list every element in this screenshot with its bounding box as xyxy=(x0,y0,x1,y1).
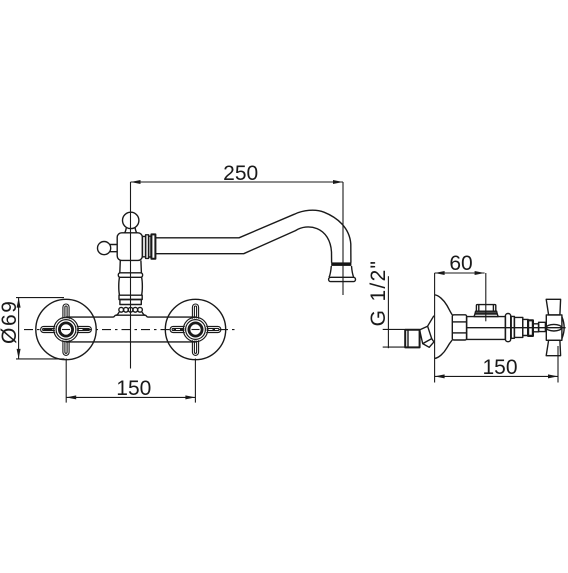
left wall flange circle xyxy=(36,299,96,359)
inlet square nut xyxy=(405,330,419,348)
side view centerline xyxy=(467,327,566,329)
dimension 150 (side) line xyxy=(435,375,558,377)
150 front extension lines xyxy=(65,359,67,403)
top boss knurled band xyxy=(475,311,497,314)
finial neck xyxy=(125,228,137,233)
right handle cross arms xyxy=(170,304,221,355)
left handle hub rings xyxy=(54,317,78,341)
valve body cylinder xyxy=(467,317,506,340)
handle bottom lobe xyxy=(546,340,560,355)
top boss cap xyxy=(476,305,495,312)
column band 2 xyxy=(119,295,142,299)
flange hex nut xyxy=(452,315,466,340)
column base flare xyxy=(116,312,146,315)
D69 extension lines xyxy=(16,297,64,299)
column barrel xyxy=(119,277,143,295)
150 side right extension xyxy=(557,346,559,383)
column neck below head xyxy=(120,260,142,272)
bonnet capsule ring xyxy=(505,314,510,342)
spout swan-neck outline xyxy=(156,210,351,262)
dashed horizontal centerline of front view xyxy=(24,329,235,331)
dimension 150 (front) line xyxy=(66,396,195,398)
svg-text:150: 150 xyxy=(482,356,517,379)
bonnet ring 2 xyxy=(511,316,514,338)
handle top lobe xyxy=(546,299,560,315)
svg-text:G 1/2": G 1/2" xyxy=(367,260,390,327)
dimension D69 line xyxy=(18,298,20,359)
60 right extension line xyxy=(485,273,487,321)
svg-text:150: 150 xyxy=(116,377,151,400)
svg-text:60: 60 xyxy=(449,252,472,275)
handle right arc xyxy=(562,317,564,339)
stem neck xyxy=(533,324,539,332)
dimension 60 line xyxy=(435,272,485,274)
bead ring xyxy=(119,307,142,312)
150 front arrows xyxy=(66,395,195,399)
wall flange bell profile xyxy=(435,295,453,359)
G 1/2 leader line xyxy=(387,276,389,348)
handle hub xyxy=(546,315,562,340)
150 side arrows xyxy=(435,374,558,378)
side lever ball xyxy=(98,242,111,255)
extension line at spout outlet xyxy=(342,182,344,295)
column ring band xyxy=(118,273,142,278)
inlet cone xyxy=(423,316,434,348)
bonnet step xyxy=(523,319,528,335)
outlet lip xyxy=(329,277,356,281)
left handle cross arms xyxy=(41,304,92,355)
cartridge head block xyxy=(117,233,142,261)
extension line / centerline of column xyxy=(130,182,132,369)
side lever stem xyxy=(109,245,118,252)
60 arrows xyxy=(435,271,485,275)
right wall flange circle xyxy=(165,299,225,359)
svg-text:250: 250 xyxy=(223,162,258,185)
right handle hub rings xyxy=(183,317,207,341)
svg-text:Ø69: Ø69 xyxy=(0,299,21,344)
bonnet block xyxy=(514,317,522,337)
stem block xyxy=(539,322,546,331)
spout collar rings xyxy=(142,234,155,258)
dimension 250 arrows xyxy=(131,180,344,184)
G 1/2 tick marks xyxy=(383,328,405,330)
dimension 250 line xyxy=(131,181,344,183)
outlet flare xyxy=(329,266,354,277)
column band 3 xyxy=(120,300,141,305)
D69 arrows xyxy=(17,298,21,359)
inlet nipple xyxy=(420,326,432,343)
spout outlet dark band xyxy=(331,262,351,266)
top finial ball xyxy=(123,212,139,228)
shared left extension line (wall face) xyxy=(434,273,436,383)
dark stem band xyxy=(528,320,533,336)
handle cross-arm ellipse xyxy=(546,324,561,331)
body tube between flanges xyxy=(66,315,196,317)
top boss skirt xyxy=(474,314,498,317)
